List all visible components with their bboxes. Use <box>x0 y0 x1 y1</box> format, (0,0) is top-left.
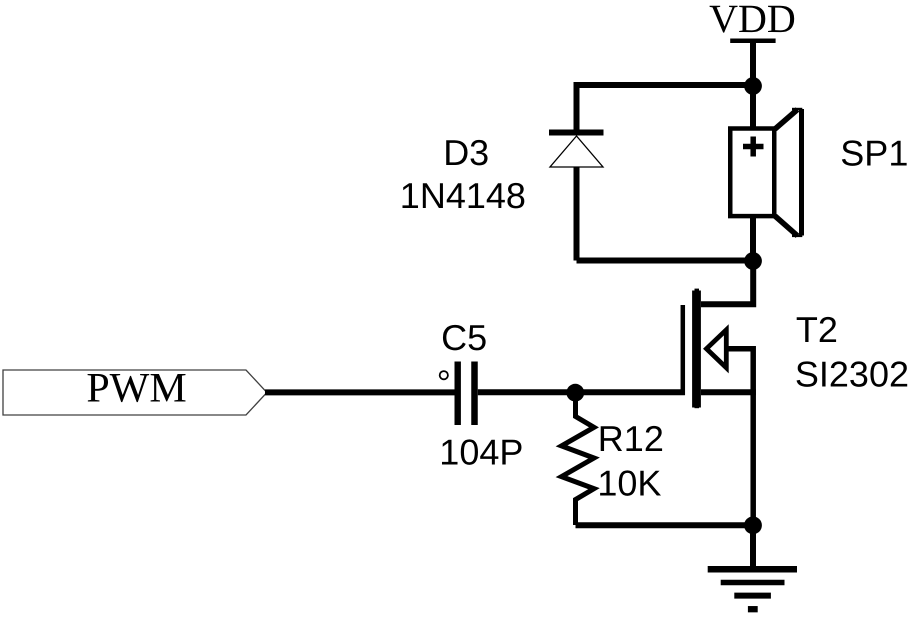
svg-text:C5: C5 <box>441 317 487 358</box>
svg-text:D3: D3 <box>443 132 489 173</box>
svg-text:VDD: VDD <box>709 0 796 41</box>
svg-text:104P: 104P <box>439 432 523 473</box>
svg-text:1N4148: 1N4148 <box>400 175 526 216</box>
svg-text:SI2302: SI2302 <box>795 353 908 394</box>
svg-text:10K: 10K <box>597 462 661 503</box>
svg-text:T2: T2 <box>796 309 838 350</box>
svg-text:R12: R12 <box>598 418 664 459</box>
svg-text:SP1: SP1 <box>840 133 908 174</box>
svg-text:PWM: PWM <box>86 366 186 412</box>
